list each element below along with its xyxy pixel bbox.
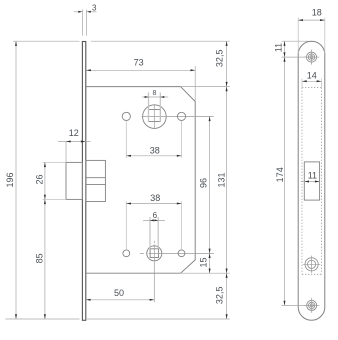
- dimension 85 (bottom distance): [44, 199, 46, 319]
- svg-text:15: 15: [199, 257, 209, 267]
- spindle square hole 8mm: [148, 110, 160, 122]
- svg-text:18: 18: [312, 8, 322, 18]
- dimension 50 (backset): [86, 299, 154, 301]
- svg-text:14: 14: [307, 71, 317, 81]
- svg-text:196: 196: [5, 172, 15, 187]
- lower left fixing hole: [123, 250, 130, 257]
- spindle follower circle: [143, 105, 167, 129]
- dimension 38 lower (hole spacing): [125, 201, 127, 250]
- svg-text:174: 174: [275, 167, 285, 182]
- svg-text:96: 96: [198, 178, 208, 188]
- lower horizontal centerline: [140, 252, 144, 254]
- dimension 196 (overall height): [15, 41, 17, 319]
- lock case outline: [86, 87, 195, 274]
- dimension 12 (latch projection): [65, 142, 67, 163]
- dimension 11 (latch opening width): [301, 181, 320, 183]
- svg-text:11: 11: [308, 171, 317, 181]
- svg-text:131: 131: [216, 172, 226, 187]
- svg-text:8: 8: [153, 90, 157, 97]
- svg-text:26: 26: [34, 174, 44, 184]
- dimension 73 (case depth): [86, 69, 195, 71]
- svg-text:6: 6: [153, 211, 158, 220]
- upper left fixing hole: [122, 112, 130, 120]
- svg-text:38: 38: [150, 193, 160, 203]
- dimension 26 (latch height): [43, 161, 66, 163]
- svg-text:3: 3: [92, 3, 97, 12]
- dimension 15: [209, 253, 211, 258]
- svg-text:38: 38: [150, 146, 160, 156]
- lower right fixing hole: [178, 250, 185, 257]
- dimension 38 upper (hole spacing): [125, 121, 127, 158]
- svg-text:32,5: 32,5: [214, 50, 224, 68]
- wire bottom extension line: [6, 318, 80, 320]
- dimension 96 (follower spacing): [209, 116, 211, 273]
- svg-text:85: 85: [34, 253, 44, 263]
- upper horizontal centerline: [142, 115, 214, 117]
- spindle vertical centerline: [153, 104, 155, 129]
- hidden case dashed lines: [301, 88, 303, 275]
- dimension 3 (plate thickness): [82, 10, 84, 36]
- cylinder screw hole: [305, 258, 318, 271]
- dimension 174 (screw spacing): [282, 304, 306, 306]
- cylinder follower circle: [147, 246, 162, 261]
- wire top extension line: [13, 40, 80, 42]
- wire case top edge extension: [181, 86, 230, 88]
- upper right fixing hole: [177, 112, 185, 120]
- dimension 18 (plate width): [297, 18, 299, 54]
- latch bolt body in case: [86, 160, 105, 201]
- svg-text:73: 73: [134, 58, 144, 68]
- wire case bottom edge extension: [181, 272, 230, 274]
- dimension 11 top right: [282, 40, 309, 42]
- faceplate side view: [82, 42, 85, 321]
- faceplate front view: [298, 41, 325, 320]
- svg-text:12: 12: [69, 128, 79, 138]
- svg-text:32,5: 32,5: [214, 287, 224, 305]
- dimension 8 (spindle square): [148, 93, 150, 123]
- cylinder square hole 6mm: [150, 249, 159, 258]
- lower vertical centerline: [153, 241, 155, 243]
- latch bevel lines: [86, 177, 105, 179]
- latch opening: [304, 162, 319, 200]
- top screw hole: [307, 52, 317, 62]
- bottom screw hole: [307, 300, 317, 310]
- svg-text:11: 11: [273, 43, 283, 52]
- dimension 32,5 bottom: [226, 273, 228, 278]
- dimension 6 (cylinder square): [149, 217, 151, 249]
- latch bolt head: [66, 162, 82, 199]
- wire case right edge extension: [194, 66, 196, 102]
- svg-text:50: 50: [114, 288, 124, 298]
- dimension 14 (case width): [301, 79, 303, 88]
- dimension 131 (case height): [226, 87, 228, 92]
- dimension 32,5 top: [226, 41, 228, 319]
